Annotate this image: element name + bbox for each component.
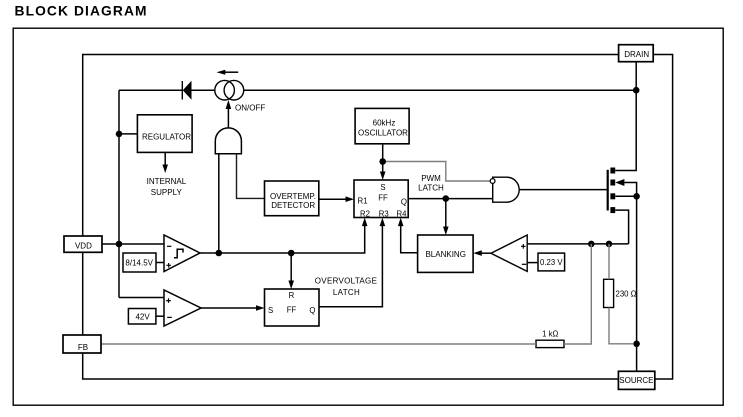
junction: C1 output / OV latch R	[288, 250, 295, 257]
svg-text:ON/OFF: ON/OFF	[235, 104, 265, 113]
svg-text:DRAIN: DRAIN	[624, 50, 649, 59]
svg-text:Q: Q	[309, 306, 315, 315]
junction: C1 output / G1 input	[216, 250, 223, 257]
pin box VDD	[64, 236, 102, 252]
svg-text:VDD: VDD	[75, 241, 92, 250]
hysteresis symbol in C1	[174, 249, 183, 257]
svg-text:60kHz: 60kHz	[373, 118, 396, 127]
wire: VDD to C1 minus	[102, 243, 164, 245]
wire: 42V to C2 minus	[156, 315, 164, 317]
svg-text:LATCH: LATCH	[418, 184, 444, 193]
svg-text:R2: R2	[360, 209, 370, 218]
svg-text:REGULATOR: REGULATOR	[142, 132, 191, 141]
wire: G1 left input from comparator C1 output node	[218, 154, 220, 253]
svg-text:0.23 V: 0.23 V	[540, 258, 563, 267]
diode D1	[183, 81, 192, 100]
wire: OV latch Q to latch R3	[319, 223, 382, 307]
pin box SOURCE	[618, 371, 654, 389]
svg-text:FF: FF	[287, 305, 297, 314]
junction: source pad node	[633, 193, 640, 200]
wire: current source to drain rail	[244, 89, 637, 91]
MOSFET sense pad	[610, 207, 615, 213]
regulator block	[137, 115, 192, 153]
reference 0.23 V box	[538, 253, 565, 271]
resistor 1 kohm	[536, 340, 564, 347]
wire: C3 plus input from sense node	[527, 243, 629, 245]
wire: 8/14.5V to C1 plus	[156, 262, 164, 264]
MOSFET drain pad	[610, 168, 615, 174]
wire: oscillator to PWM latch S input	[382, 144, 384, 175]
svg-text:BLANKING: BLANKING	[425, 250, 465, 259]
power MOSFET Q1 gate bar	[607, 170, 609, 211]
comparator C3 (current limit)	[491, 235, 527, 271]
junction: oscillator node	[379, 158, 386, 165]
wire: comparator C3 output to blanking	[478, 252, 491, 254]
svg-text:LATCH: LATCH	[333, 288, 360, 297]
svg-text:S: S	[380, 183, 385, 192]
IC boundary box	[83, 55, 673, 380]
junction: source bottom node	[633, 341, 640, 348]
svg-text:PWM: PWM	[421, 174, 441, 183]
svg-text:42V: 42V	[135, 313, 150, 322]
inverter bubble on G2 input	[490, 179, 495, 184]
svg-text:FF: FF	[378, 193, 388, 202]
wire: Q node down to blanking	[445, 199, 447, 230]
svg-text:OVERTEMP.: OVERTEMP.	[270, 192, 316, 201]
wire: C1 output to latch R2	[200, 223, 365, 254]
wire: overtemp to latch R1	[319, 198, 349, 200]
MOSFET source pad	[610, 193, 615, 199]
svg-text:DETECTOR: DETECTOR	[271, 201, 315, 210]
junction: 1k ohm node	[588, 241, 595, 248]
wire: source pad to source rail	[615, 195, 636, 197]
wire: G2 output to MOSFET gate	[519, 189, 606, 191]
wire: sense line up to MOSFET sense pad	[615, 210, 628, 244]
wire: 1k to sense node (gray)	[564, 244, 591, 344]
svg-text:OVERVOLTAGE: OVERVOLTAGE	[315, 277, 377, 286]
svg-text:FB: FB	[78, 343, 88, 352]
wire: blanking left to latch R4	[401, 223, 418, 253]
reference 8/14.5V box	[123, 253, 156, 272]
svg-text:R3: R3	[379, 209, 389, 218]
blanking block	[418, 235, 474, 272]
wire: rail tap to regulator	[119, 133, 137, 135]
PWM latch FF1	[354, 180, 408, 218]
MOSFET body pad	[610, 180, 615, 186]
wire: rail to C2 plus	[119, 297, 164, 299]
PWM AND gate G2	[493, 177, 519, 202]
svg-text:R1: R1	[358, 196, 368, 205]
junction: drain rail	[633, 87, 640, 94]
svg-text:R: R	[289, 291, 295, 300]
junction: Q node	[443, 195, 450, 202]
pin box FB	[63, 335, 101, 353]
wire: body arrow to source rail	[624, 183, 636, 372]
wire: drain pad to drain rail	[615, 62, 636, 171]
svg-text:Q: Q	[401, 197, 407, 206]
internal supply arrow	[164, 152, 166, 168]
svg-text:BLOCK DIAGRAM: BLOCK DIAGRAM	[15, 4, 148, 19]
wire: node down to OV latch R input	[290, 253, 292, 284]
wire: 230 ohm bottom to source node (gray)	[609, 308, 634, 344]
svg-text:OSCILLATOR: OSCILLATOR	[358, 129, 408, 138]
svg-text:230 Ω: 230 Ω	[616, 290, 637, 299]
wire: G1 right input from overtemp detector (gray)	[237, 154, 265, 199]
wire: oscillator node to PWM gate inverted input (gray)	[383, 162, 491, 182]
comparator C1 (undervoltage, hysteretic)	[164, 235, 200, 272]
AND gate G1 (on/off)	[215, 128, 241, 154]
diode D1 cathode bar	[181, 81, 183, 100]
wire: 230 ohm top to sense node (gray)	[608, 244, 610, 279]
wire: diode to current source	[192, 89, 216, 91]
wire: C3 minus to 0.23V ref	[527, 262, 538, 264]
svg-text:1 kΩ: 1 kΩ	[542, 330, 558, 339]
overvoltage latch FF2	[265, 289, 320, 326]
svg-text:R4: R4	[397, 209, 408, 218]
MOSFET body arrow	[615, 179, 624, 186]
wire: C2 output to OV latch S	[201, 307, 260, 309]
svg-text:SUPPLY: SUPPLY	[151, 188, 183, 197]
wire: on/off arrow from AND gate G1 to current source	[227, 104, 229, 128]
svg-text:8/14.5V: 8/14.5V	[125, 258, 153, 267]
svg-text:SOURCE: SOURCE	[619, 376, 653, 385]
wire: latch Q to PWM gate input	[408, 198, 493, 200]
comparator C2 (overvoltage)	[164, 290, 201, 326]
junction: 230 ohm node	[606, 241, 613, 248]
wire: VDD internal supply rail vertical	[118, 90, 120, 297]
overtemp detector block	[265, 181, 319, 216]
junction: rail/regulator	[116, 131, 123, 138]
60kHz oscillator block	[355, 108, 409, 143]
current source CS1 (on/off controlled)	[215, 80, 235, 100]
wire: top rail from regulator rail to diode	[119, 89, 182, 91]
current direction arrow	[224, 71, 238, 73]
svg-text:INTERNAL: INTERNAL	[147, 177, 187, 186]
reference 42V box	[128, 309, 156, 325]
resistor 230 ohm	[604, 279, 614, 307]
svg-text:S: S	[268, 306, 273, 315]
wire: FB to 1k (gray)	[101, 343, 536, 345]
pin box DRAIN	[619, 45, 654, 62]
junction: rail/VDD	[116, 241, 123, 248]
